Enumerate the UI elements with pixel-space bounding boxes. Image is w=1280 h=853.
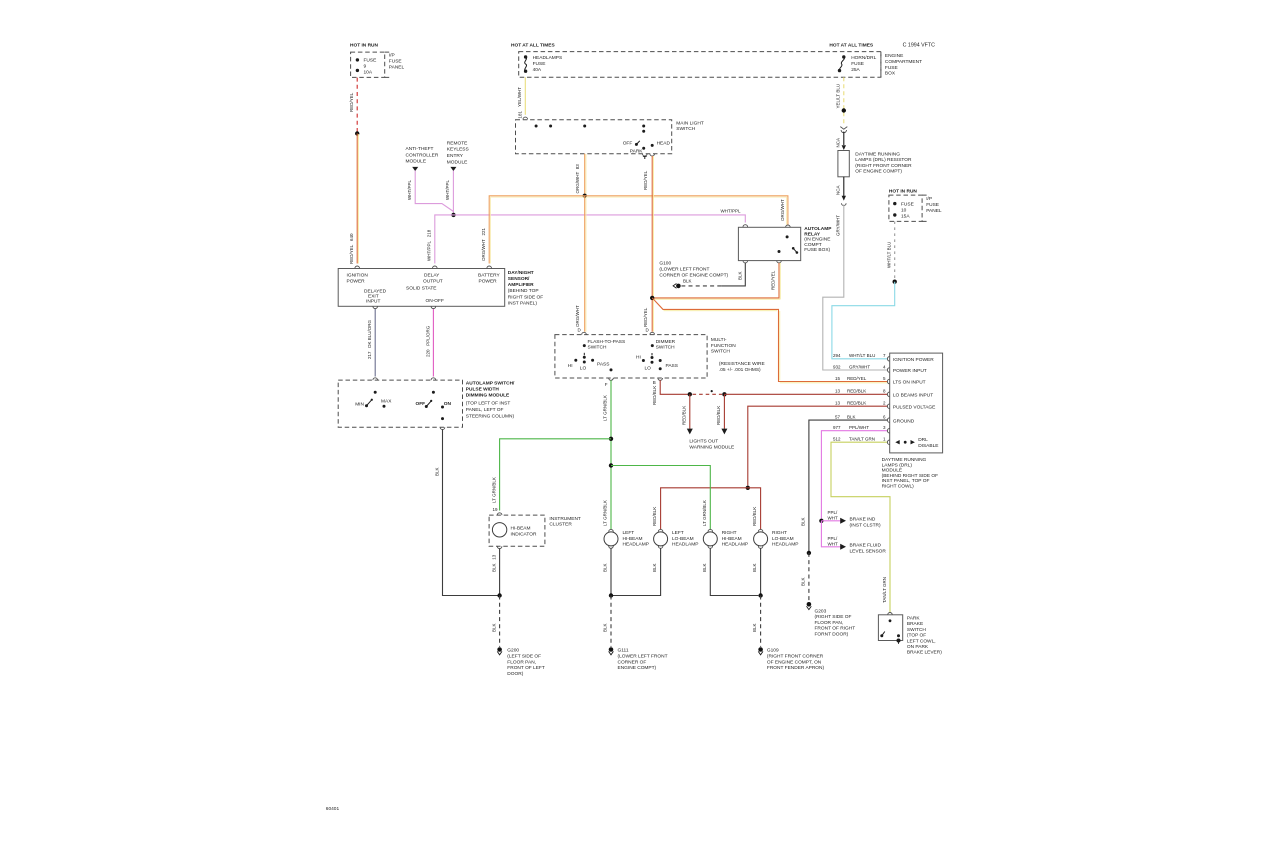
- wire NCA resistor output w/ connector: [835, 177, 846, 206]
- lamp left hi-beam headlamp: [604, 529, 649, 547]
- svg-text:I/P: I/P: [389, 53, 395, 59]
- splice LT GRN/BLK to cluster: [609, 437, 613, 441]
- svg-text:15: 15: [835, 376, 841, 381]
- svg-text:WHT/LT BLU: WHT/LT BLU: [886, 242, 891, 268]
- svg-text:DIMMING MODULE: DIMMING MODULE: [466, 393, 510, 399]
- svg-text:DAYTIME RUNNING: DAYTIME RUNNING: [855, 151, 900, 157]
- svg-text:WHT/LT BLU: WHT/LT BLU: [849, 353, 875, 358]
- label day/night sensor: [508, 270, 543, 307]
- svg-text:STEERING COLUMN): STEERING COLUMN): [466, 413, 515, 419]
- svg-text:PASS: PASS: [597, 362, 609, 368]
- svg-text:RED/YEL: RED/YEL: [643, 307, 648, 327]
- wire PPL/ORG 220: [425, 309, 435, 380]
- lamp right lo-beam headlamp: [754, 529, 799, 547]
- svg-text:PANEL, LEFT OF: PANEL, LEFT OF: [466, 407, 504, 413]
- fuse box I/P FUSE PANEL (FUSE 9): [351, 52, 405, 77]
- splice on YEL/LT BLU: [842, 108, 846, 112]
- svg-text:C 1994 VFTC: C 1994 VFTC: [903, 43, 936, 49]
- svg-text:HI-BEAM: HI-BEAM: [511, 526, 531, 532]
- svg-text:ORG/WHT: ORG/WHT: [575, 305, 580, 327]
- svg-text:BLK: BLK: [603, 623, 608, 632]
- label multi-function switch: [711, 337, 765, 373]
- wire ORG/WHT to autolamp relay: [585, 196, 790, 228]
- svg-text:TAN/LT GRN: TAN/LT GRN: [849, 436, 875, 441]
- wire GRY/WHT 932 to DRL module pin 4: [823, 205, 890, 373]
- svg-text:OF ENGINE COMPT, ON: OF ENGINE COMPT, ON: [767, 659, 822, 665]
- svg-text:HEADLAMP: HEADLAMP: [772, 542, 798, 548]
- splice WHT/PPL junction: [451, 213, 455, 217]
- wire BLK 13 cluster ground: [491, 549, 499, 596]
- svg-text:BRAKE LEVER): BRAKE LEVER): [907, 650, 942, 656]
- svg-text:INST PANEL, TOP OF: INST PANEL, TOP OF: [882, 478, 930, 484]
- svg-text:G203: G203: [815, 608, 827, 614]
- wire BLK dashed to G111: [603, 596, 611, 647]
- svg-text:HI: HI: [568, 363, 573, 369]
- wire TAN/LT GRN 512 pin 1: [831, 436, 892, 614]
- svg-text:G111: G111: [618, 648, 629, 654]
- svg-text:MODULE: MODULE: [447, 159, 468, 165]
- svg-text:FUSE: FUSE: [533, 61, 546, 67]
- wire ORG/WHT 83 from switch: [575, 154, 586, 196]
- wire WHT/LT BLU 294 to DRL module pin 7: [832, 282, 895, 361]
- svg-text:.05 +/- .001 OHMS): .05 +/- .001 OHMS): [719, 367, 761, 373]
- svg-text:HI: HI: [636, 355, 641, 361]
- svg-text:181: 181: [518, 110, 523, 118]
- svg-text:DISABLE: DISABLE: [918, 443, 938, 449]
- remote keyless entry module: [447, 140, 469, 171]
- svg-text:LO-BEAM: LO-BEAM: [672, 536, 694, 542]
- DRL module U2: [890, 353, 943, 453]
- wire PPL/WHT to brake fluid level sensor: [821, 521, 886, 555]
- svg-text:10A: 10A: [364, 70, 373, 76]
- svg-text:LTS ON INPUT: LTS ON INPUT: [893, 380, 926, 386]
- svg-text:SWITCH: SWITCH: [676, 126, 695, 132]
- splice BLK: [807, 551, 811, 555]
- wire RED/YEL head output: [643, 156, 654, 335]
- svg-text:ORG/WHT: ORG/WHT: [780, 199, 785, 221]
- svg-text:LT GRN/BLK: LT GRN/BLK: [702, 500, 707, 526]
- svg-text:ANTI-THEFT: ANTI-THEFT: [406, 146, 434, 152]
- svg-text:HEADLAMP: HEADLAMP: [722, 542, 748, 548]
- svg-text:KEYLESS: KEYLESS: [447, 147, 469, 153]
- svg-text:PPL/WHT: PPL/WHT: [849, 425, 869, 430]
- svg-text:HI-BEAM: HI-BEAM: [722, 536, 742, 542]
- svg-text:LEFT: LEFT: [623, 530, 635, 536]
- ground G200: [497, 647, 545, 677]
- svg-text:BLK: BLK: [435, 467, 440, 476]
- svg-text:DOOR): DOOR): [507, 671, 523, 677]
- svg-text:PPL/: PPL/: [828, 510, 839, 515]
- wire RED/YEL 15 to DRL module pin 5: [652, 298, 890, 384]
- svg-text:HEADLAMP: HEADLAMP: [623, 542, 649, 548]
- splice ORG/WHT junction: [583, 194, 587, 198]
- svg-text:57: 57: [835, 414, 841, 419]
- svg-text:FUSE: FUSE: [389, 59, 402, 65]
- svg-text:NCA: NCA: [835, 138, 840, 148]
- svg-text:(RIGHT FRONT CORNER: (RIGHT FRONT CORNER: [855, 163, 912, 169]
- svg-text:AUTOLAMP: AUTOLAMP: [804, 226, 832, 232]
- anti-theft controller module: [406, 146, 439, 171]
- svg-text:15A: 15A: [901, 213, 910, 219]
- svg-text:RED/YEL: RED/YEL: [847, 376, 867, 381]
- svg-text:WHT/PPL: WHT/PPL: [407, 180, 412, 200]
- svg-text:LAMPS (DRL): LAMPS (DRL): [882, 462, 913, 468]
- svg-text:YEL/WHT: YEL/WHT: [517, 87, 522, 107]
- wire RED/YEL fused feed (dashed): [349, 78, 357, 134]
- svg-text:INSTRUMENT: INSTRUMENT: [549, 516, 581, 522]
- wire BLK left lo-beam ground: [613, 546, 663, 596]
- svg-text:BLK: BLK: [652, 563, 657, 572]
- svg-text:OFF: OFF: [416, 401, 426, 407]
- DRL module pin numbers: [0, 0, 1, 1]
- svg-text:FRONT OF RIGHT: FRONT OF RIGHT: [815, 626, 856, 632]
- splice S (ignition feed): [355, 131, 359, 135]
- splice LT GRN/BLK to right hi-beam: [609, 463, 613, 467]
- main light switch SW1: [516, 120, 672, 155]
- svg-text:LT GRN/BLK: LT GRN/BLK: [603, 500, 608, 526]
- park brake switch SW3: [878, 615, 902, 644]
- wire ORG/WHT 221 to battery power: [481, 196, 585, 268]
- svg-text:(RIGHT FRONT CORNER: (RIGHT FRONT CORNER: [767, 654, 824, 660]
- svg-text:SWITCH: SWITCH: [711, 349, 730, 355]
- splice RED/BLK left: [688, 392, 692, 396]
- svg-text:PARK: PARK: [907, 616, 921, 622]
- label park brake switch: [907, 616, 942, 656]
- svg-text:POWER: POWER: [479, 279, 498, 285]
- wire BLK right lo-beam ground: [752, 546, 763, 596]
- multi-function switch SW2: [555, 335, 707, 378]
- svg-text:LO: LO: [580, 365, 587, 371]
- svg-text:PASS: PASS: [666, 363, 678, 369]
- svg-text:FLASH-TO-PASS: FLASH-TO-PASS: [588, 339, 626, 345]
- svg-text:HEAD: HEAD: [657, 140, 671, 146]
- svg-text:CORNER OF ENGINE COMPT): CORNER OF ENGINE COMPT): [659, 272, 728, 278]
- wire PPL/WHT 977 pin 3: [821, 425, 889, 519]
- svg-text:BLK: BLK: [738, 271, 743, 280]
- switch contact (lights out sense): [693, 390, 723, 394]
- svg-text:BRAKE FLUID: BRAKE FLUID: [850, 543, 882, 549]
- svg-text:IGNITION: IGNITION: [347, 273, 369, 279]
- svg-text:MODULE: MODULE: [882, 468, 903, 474]
- svg-text:(BEHIND RIGHT SIDE OF: (BEHIND RIGHT SIDE OF: [882, 473, 938, 479]
- svg-text:CONTROLLER: CONTROLLER: [406, 152, 439, 158]
- svg-text:217 DK BLU/ORG: 217 DK BLU/ORG: [367, 319, 372, 359]
- label autolamp relay: [804, 226, 832, 253]
- svg-text:FRONT OF LEFT: FRONT OF LEFT: [507, 665, 545, 671]
- pin on-off: [431, 306, 436, 308]
- svg-text:13: 13: [835, 388, 841, 393]
- splice BLK G109: [758, 593, 762, 597]
- svg-text:COMPARTMENT: COMPARTMENT: [885, 59, 922, 65]
- svg-text:HEADLAMP: HEADLAMP: [672, 542, 698, 548]
- svg-text:ENGINE COMPT): ENGINE COMPT): [618, 665, 657, 671]
- ground G109: [758, 647, 824, 671]
- svg-text:60401: 60401: [326, 806, 340, 812]
- svg-text:HI-BEAM: HI-BEAM: [623, 536, 643, 542]
- wire WHT/LT BLU fused (dashed): [886, 221, 894, 279]
- svg-text:AMPLIFIER: AMPLIFIER: [508, 282, 534, 288]
- svg-text:FORNT DOOR): FORNT DOOR): [815, 632, 849, 638]
- wire ORG/WHT to flash-to-pass: [575, 196, 586, 335]
- svg-text:INST PANEL): INST PANEL): [508, 300, 538, 306]
- svg-text:SWITCH: SWITCH: [588, 345, 607, 351]
- svg-text:DAYTIME RUNNING: DAYTIME RUNNING: [882, 457, 927, 463]
- svg-text:TAN/LT GRN: TAN/LT GRN: [882, 577, 887, 603]
- node HOT IN RUN (left): [350, 43, 379, 49]
- svg-text:WHT/PPL: WHT/PPL: [721, 209, 741, 214]
- svg-text:BLK: BLK: [603, 563, 608, 572]
- svg-text:MAX: MAX: [381, 398, 392, 404]
- svg-text:OFF: OFF: [623, 140, 633, 146]
- svg-text:MODULE: MODULE: [406, 158, 427, 164]
- wire BLK dashed to G200: [491, 596, 499, 647]
- svg-text:DRL: DRL: [918, 437, 928, 443]
- connector (inline): [840, 127, 847, 133]
- svg-text:ORG/WHT 83: ORG/WHT 83: [575, 164, 580, 194]
- svg-text:GROUND: GROUND: [893, 418, 915, 424]
- wire BLK relay ground: [682, 263, 746, 286]
- wire WHT/PPL from keyless: [445, 171, 453, 215]
- wire BLK left hi-beam ground: [603, 546, 614, 596]
- note 60401: [326, 806, 340, 812]
- node HOT IN RUN (right): [889, 189, 918, 195]
- wire RED/BLK to lights-out module (left arrow): [682, 394, 693, 434]
- svg-text:BLK: BLK: [801, 577, 806, 586]
- svg-text:LO: LO: [645, 365, 652, 371]
- svg-text:ENGINE: ENGINE: [885, 53, 903, 59]
- svg-text:(LOWER LEFT FRONT: (LOWER LEFT FRONT: [659, 267, 709, 273]
- splice BLK G111: [609, 593, 613, 597]
- svg-text:LT GRN/BLK: LT GRN/BLK: [603, 395, 608, 421]
- svg-text:40A: 40A: [533, 67, 542, 73]
- svg-text:RED/BLK: RED/BLK: [847, 400, 866, 405]
- svg-text:DIMMER: DIMMER: [656, 339, 676, 345]
- svg-text:I/P: I/P: [926, 196, 932, 202]
- svg-text:10: 10: [901, 207, 907, 213]
- svg-text:OUTPUT: OUTPUT: [423, 279, 443, 285]
- wire LT GRN/BLK 19 to hi-beam indicator: [491, 439, 611, 515]
- ENGINE COMPARTMENT FUSE BOX (top): [511, 43, 935, 78]
- svg-text:977: 977: [833, 425, 841, 430]
- svg-text:BLK: BLK: [801, 517, 806, 526]
- svg-text:(INST CLSTR): (INST CLSTR): [850, 523, 881, 529]
- splice RED/BLK right: [722, 392, 726, 396]
- svg-text:GRY/WHT: GRY/WHT: [849, 364, 870, 369]
- wire WHT/PPL from anti-theft: [407, 171, 454, 212]
- svg-text:LEFT: LEFT: [672, 530, 684, 536]
- svg-text:RED/BLK: RED/BLK: [716, 406, 721, 425]
- svg-text:BLK: BLK: [683, 279, 692, 284]
- svg-text:(TOP OF: (TOP OF: [907, 633, 926, 639]
- svg-text:ON-OFF: ON-OFF: [426, 298, 444, 304]
- lamp right hi-beam headlamp: [703, 529, 748, 547]
- svg-text:ON: ON: [444, 401, 452, 407]
- svg-text:LIGHTS OUT: LIGHTS OUT: [689, 439, 718, 445]
- svg-text:(LEFT SIDE OF: (LEFT SIDE OF: [507, 654, 541, 660]
- svg-text:LO BEAMS INPUT: LO BEAMS INPUT: [893, 393, 933, 399]
- svg-text:HOT IN RUN: HOT IN RUN: [889, 189, 918, 195]
- svg-text:932: 932: [833, 364, 841, 369]
- svg-text:FUSE: FUSE: [851, 61, 864, 67]
- svg-text:BRAKE IND: BRAKE IND: [850, 517, 876, 523]
- svg-text:HOT AT ALL TIMES: HOT AT ALL TIMES: [511, 43, 556, 49]
- svg-text:HORN/DRL: HORN/DRL: [851, 55, 876, 61]
- splice WHT/LT BLU: [893, 280, 897, 284]
- pin relay BLK: [743, 261, 748, 263]
- wire BLK autolamp to splice: [435, 430, 498, 596]
- svg-text:F: F: [605, 382, 608, 387]
- svg-text:FUNCTION: FUNCTION: [711, 343, 736, 349]
- svg-text:(TOP LEFT OF INST: (TOP LEFT OF INST: [466, 401, 511, 407]
- wire NCA to DRL resistor: [835, 132, 846, 150]
- svg-text:CLUSTER: CLUSTER: [549, 522, 572, 528]
- svg-text:MULTI-: MULTI-: [711, 337, 727, 343]
- wire BLK dashed to G203: [801, 553, 809, 602]
- wire YEL/LT BLU from horn/drl fuse (dashed): [835, 77, 843, 126]
- svg-text:HEADLAMPS: HEADLAMPS: [533, 55, 563, 61]
- svg-text:IGNITION POWER: IGNITION POWER: [893, 357, 934, 363]
- svg-text:294: 294: [833, 353, 841, 358]
- pin cluster ground: [497, 546, 502, 548]
- svg-text:RIGHT SIDE OF: RIGHT SIDE OF: [508, 294, 543, 300]
- svg-text:FUSE BOX): FUSE BOX): [804, 247, 830, 253]
- autolamp relay K1: [738, 227, 800, 260]
- wire WHT/PPL to autolamp relay: [454, 209, 748, 227]
- svg-text:ON PARK: ON PARK: [907, 644, 929, 650]
- svg-text:B: B: [653, 380, 656, 385]
- svg-text:LT GRN/BLK: LT GRN/BLK: [491, 477, 496, 503]
- svg-text:REMOTE: REMOTE: [447, 140, 468, 146]
- svg-text:(LOWER LEFT FRONT: (LOWER LEFT FRONT: [618, 654, 668, 660]
- wire LT GRN/BLK to right hi-beam headlamp: [611, 466, 710, 530]
- svg-text:SOLID STATE: SOLID STATE: [406, 286, 436, 292]
- svg-text:9: 9: [364, 64, 367, 70]
- svg-text:RED/BLK: RED/BLK: [652, 386, 657, 405]
- wire RED/YEL relay output: [654, 263, 780, 299]
- svg-text:AUTOLAMP SWITCH/: AUTOLAMP SWITCH/: [466, 380, 515, 386]
- svg-text:RED/BLK: RED/BLK: [682, 406, 687, 425]
- splice PPL/WHT: [819, 519, 823, 523]
- splice RED/BLK lo-beam: [746, 486, 750, 490]
- wire PPL/WHT to brake ind: [821, 510, 881, 529]
- instrument cluster: [489, 515, 581, 546]
- fuse HORN/DRL 25A: [838, 55, 877, 73]
- label DRL module: [882, 457, 938, 490]
- svg-text:YEL/LT BLU: YEL/LT BLU: [835, 84, 840, 109]
- svg-text:DAY/NIGHT: DAY/NIGHT: [508, 270, 534, 276]
- svg-text:(RIGHT SIDE OF: (RIGHT SIDE OF: [815, 614, 852, 620]
- svg-text:WHT: WHT: [828, 541, 838, 546]
- svg-text:RED/BLK: RED/BLK: [752, 507, 757, 526]
- svg-text:HOT AT ALL TIMES: HOT AT ALL TIMES: [829, 43, 874, 49]
- ground G100: [659, 261, 728, 289]
- wire BLK dashed to G109: [752, 596, 760, 647]
- svg-text:LO-BEAM: LO-BEAM: [772, 536, 794, 542]
- lamp left lo-beam headlamp: [654, 529, 699, 547]
- svg-text:FLOOR PAN,: FLOOR PAN,: [815, 620, 844, 626]
- pin F flash-to-pass: [605, 378, 614, 387]
- label autolamp switch: [466, 380, 515, 419]
- svg-text:220 PPL/ORG: 220 PPL/ORG: [425, 325, 430, 357]
- svg-text:25A: 25A: [851, 67, 860, 73]
- svg-text:G200: G200: [507, 648, 519, 654]
- svg-text:LAMPS (DRL) RESISTOR: LAMPS (DRL) RESISTOR: [855, 157, 912, 163]
- svg-text:NCA: NCA: [835, 185, 840, 195]
- fuse HEADLAMPS 40A: [524, 55, 562, 73]
- svg-text:FUSE: FUSE: [901, 201, 914, 207]
- pin head output: [650, 154, 655, 156]
- svg-text:RIGHT: RIGHT: [722, 530, 737, 536]
- svg-text:OF ENGINE COMPT): OF ENGINE COMPT): [855, 169, 902, 175]
- svg-text:BLK: BLK: [491, 623, 496, 632]
- svg-text:G109: G109: [767, 648, 779, 654]
- svg-text:DELAY: DELAY: [424, 273, 440, 279]
- label lights out warning module: [689, 439, 734, 451]
- wire YEL/WHT headlamps feed: [517, 77, 528, 119]
- wire WHT/PPL 218 to day/night sensor: [426, 215, 453, 268]
- terminal stub (park feed): [643, 154, 648, 159]
- svg-text:FUSE: FUSE: [926, 202, 939, 208]
- svg-text:CORNER OF: CORNER OF: [618, 659, 647, 665]
- wire RED/BLK dimmer to splice: [652, 380, 688, 405]
- wire RED/BLK to lights-out module (right arrow): [716, 394, 727, 434]
- svg-text:BLK: BLK: [847, 414, 856, 419]
- svg-text:PARK: PARK: [630, 148, 644, 154]
- svg-text:13: 13: [835, 400, 841, 405]
- svg-text:WHT/PPL 218: WHT/PPL 218: [426, 229, 431, 261]
- splice RED/YEL junction: [650, 296, 654, 300]
- svg-text:(IN ENGINE: (IN ENGINE: [804, 237, 830, 243]
- svg-text:BRAKE: BRAKE: [907, 621, 923, 627]
- svg-text:HOT IN RUN: HOT IN RUN: [350, 43, 379, 49]
- wire DK BLU/ORG 217: [367, 309, 377, 380]
- svg-text:SENSOR/: SENSOR/: [508, 276, 530, 282]
- svg-text:RIGHT COWL): RIGHT COWL): [882, 484, 915, 490]
- svg-text:(BEHIND TOP: (BEHIND TOP: [508, 288, 539, 294]
- pin relay RED/YEL: [777, 261, 782, 263]
- ground G111: [609, 647, 668, 671]
- svg-text:GRY/WHT: GRY/WHT: [835, 215, 840, 236]
- pin autolamp out: [440, 427, 445, 429]
- wire RED/BLK 13 to DRL module pin 8: [724, 388, 889, 396]
- svg-text:BLK: BLK: [702, 563, 707, 572]
- indicator lamp HI-BEAM: [492, 523, 537, 538]
- svg-text:RED/YEL 640: RED/YEL 640: [349, 233, 354, 264]
- svg-text:512: 512: [833, 436, 841, 441]
- svg-text:FUSE: FUSE: [364, 58, 377, 64]
- svg-text:BATTERY: BATTERY: [478, 273, 500, 279]
- svg-text:BOX: BOX: [885, 71, 896, 77]
- svg-text:PULSED VOLTAGE: PULSED VOLTAGE: [893, 404, 935, 410]
- svg-text:RED/YEL: RED/YEL: [643, 170, 648, 190]
- pin delayed exit input: [373, 306, 378, 308]
- svg-text:PULSE WIDTH: PULSE WIDTH: [466, 387, 500, 393]
- wire RED/BLK to right lo-beam: [748, 488, 761, 529]
- wire BLK right hi-beam ground: [702, 546, 758, 596]
- label main light switch: [676, 121, 704, 133]
- svg-text:RED/BLK: RED/BLK: [847, 388, 866, 393]
- svg-text:PANEL: PANEL: [389, 65, 405, 71]
- wire RED/BLK 13 pin 2 pulsed voltage: [748, 400, 890, 485]
- splice BLK G200: [497, 593, 501, 597]
- svg-text:PPL/: PPL/: [828, 536, 839, 541]
- svg-text:RELAY: RELAY: [804, 231, 821, 237]
- svg-text:WHT: WHT: [828, 515, 838, 520]
- svg-text:RIGHT: RIGHT: [772, 530, 787, 536]
- svg-text:MIN: MIN: [355, 402, 364, 408]
- svg-text:BLK: BLK: [752, 563, 757, 572]
- svg-text:LEVEL SENSOR: LEVEL SENSOR: [850, 549, 887, 555]
